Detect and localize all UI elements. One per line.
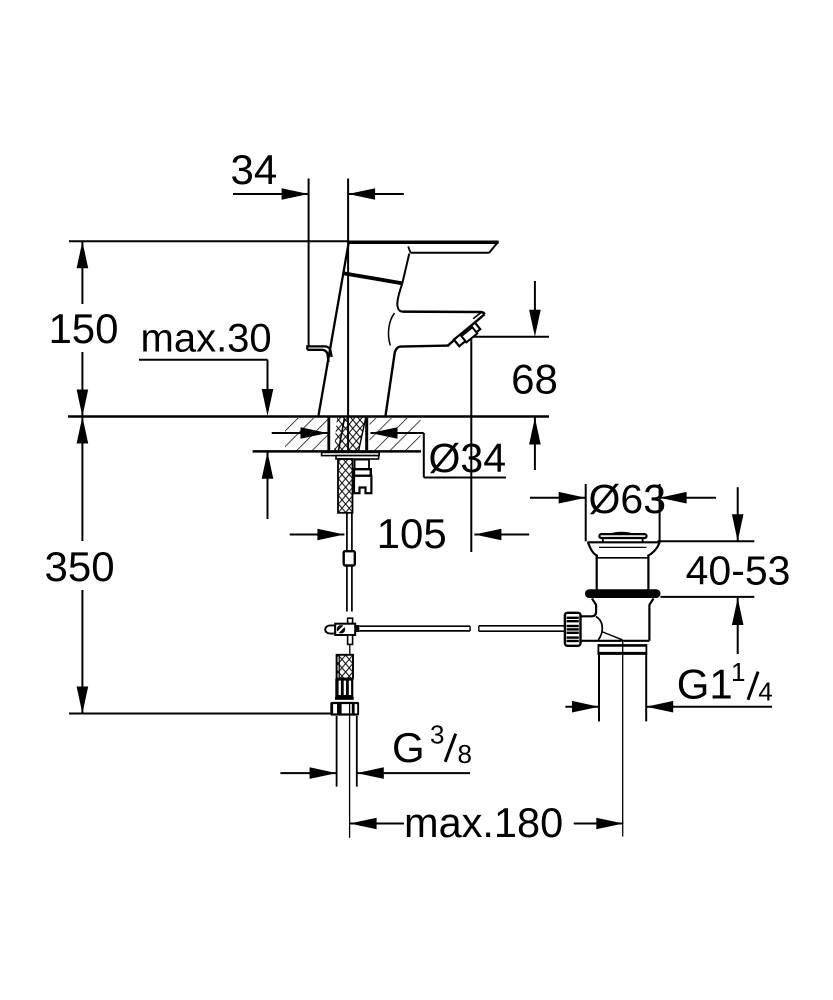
svg-text:40-53: 40-53 (686, 548, 791, 594)
svg-text:105: 105 (377, 510, 447, 557)
svg-text:4: 4 (758, 676, 772, 706)
svg-text:8: 8 (458, 739, 472, 769)
svg-text:34: 34 (231, 146, 278, 193)
svg-text:G1: G1 (677, 660, 733, 707)
svg-text:max.180: max.180 (404, 799, 563, 846)
svg-text:max.30: max.30 (141, 317, 272, 361)
svg-text:68: 68 (511, 355, 558, 402)
svg-text:1: 1 (731, 657, 745, 687)
svg-text:Ø63: Ø63 (589, 476, 667, 522)
svg-text:3: 3 (430, 720, 444, 750)
svg-text:350: 350 (45, 543, 115, 590)
svg-text:150: 150 (48, 305, 118, 352)
svg-text:G: G (392, 724, 425, 771)
svg-text:Ø34: Ø34 (429, 435, 507, 481)
